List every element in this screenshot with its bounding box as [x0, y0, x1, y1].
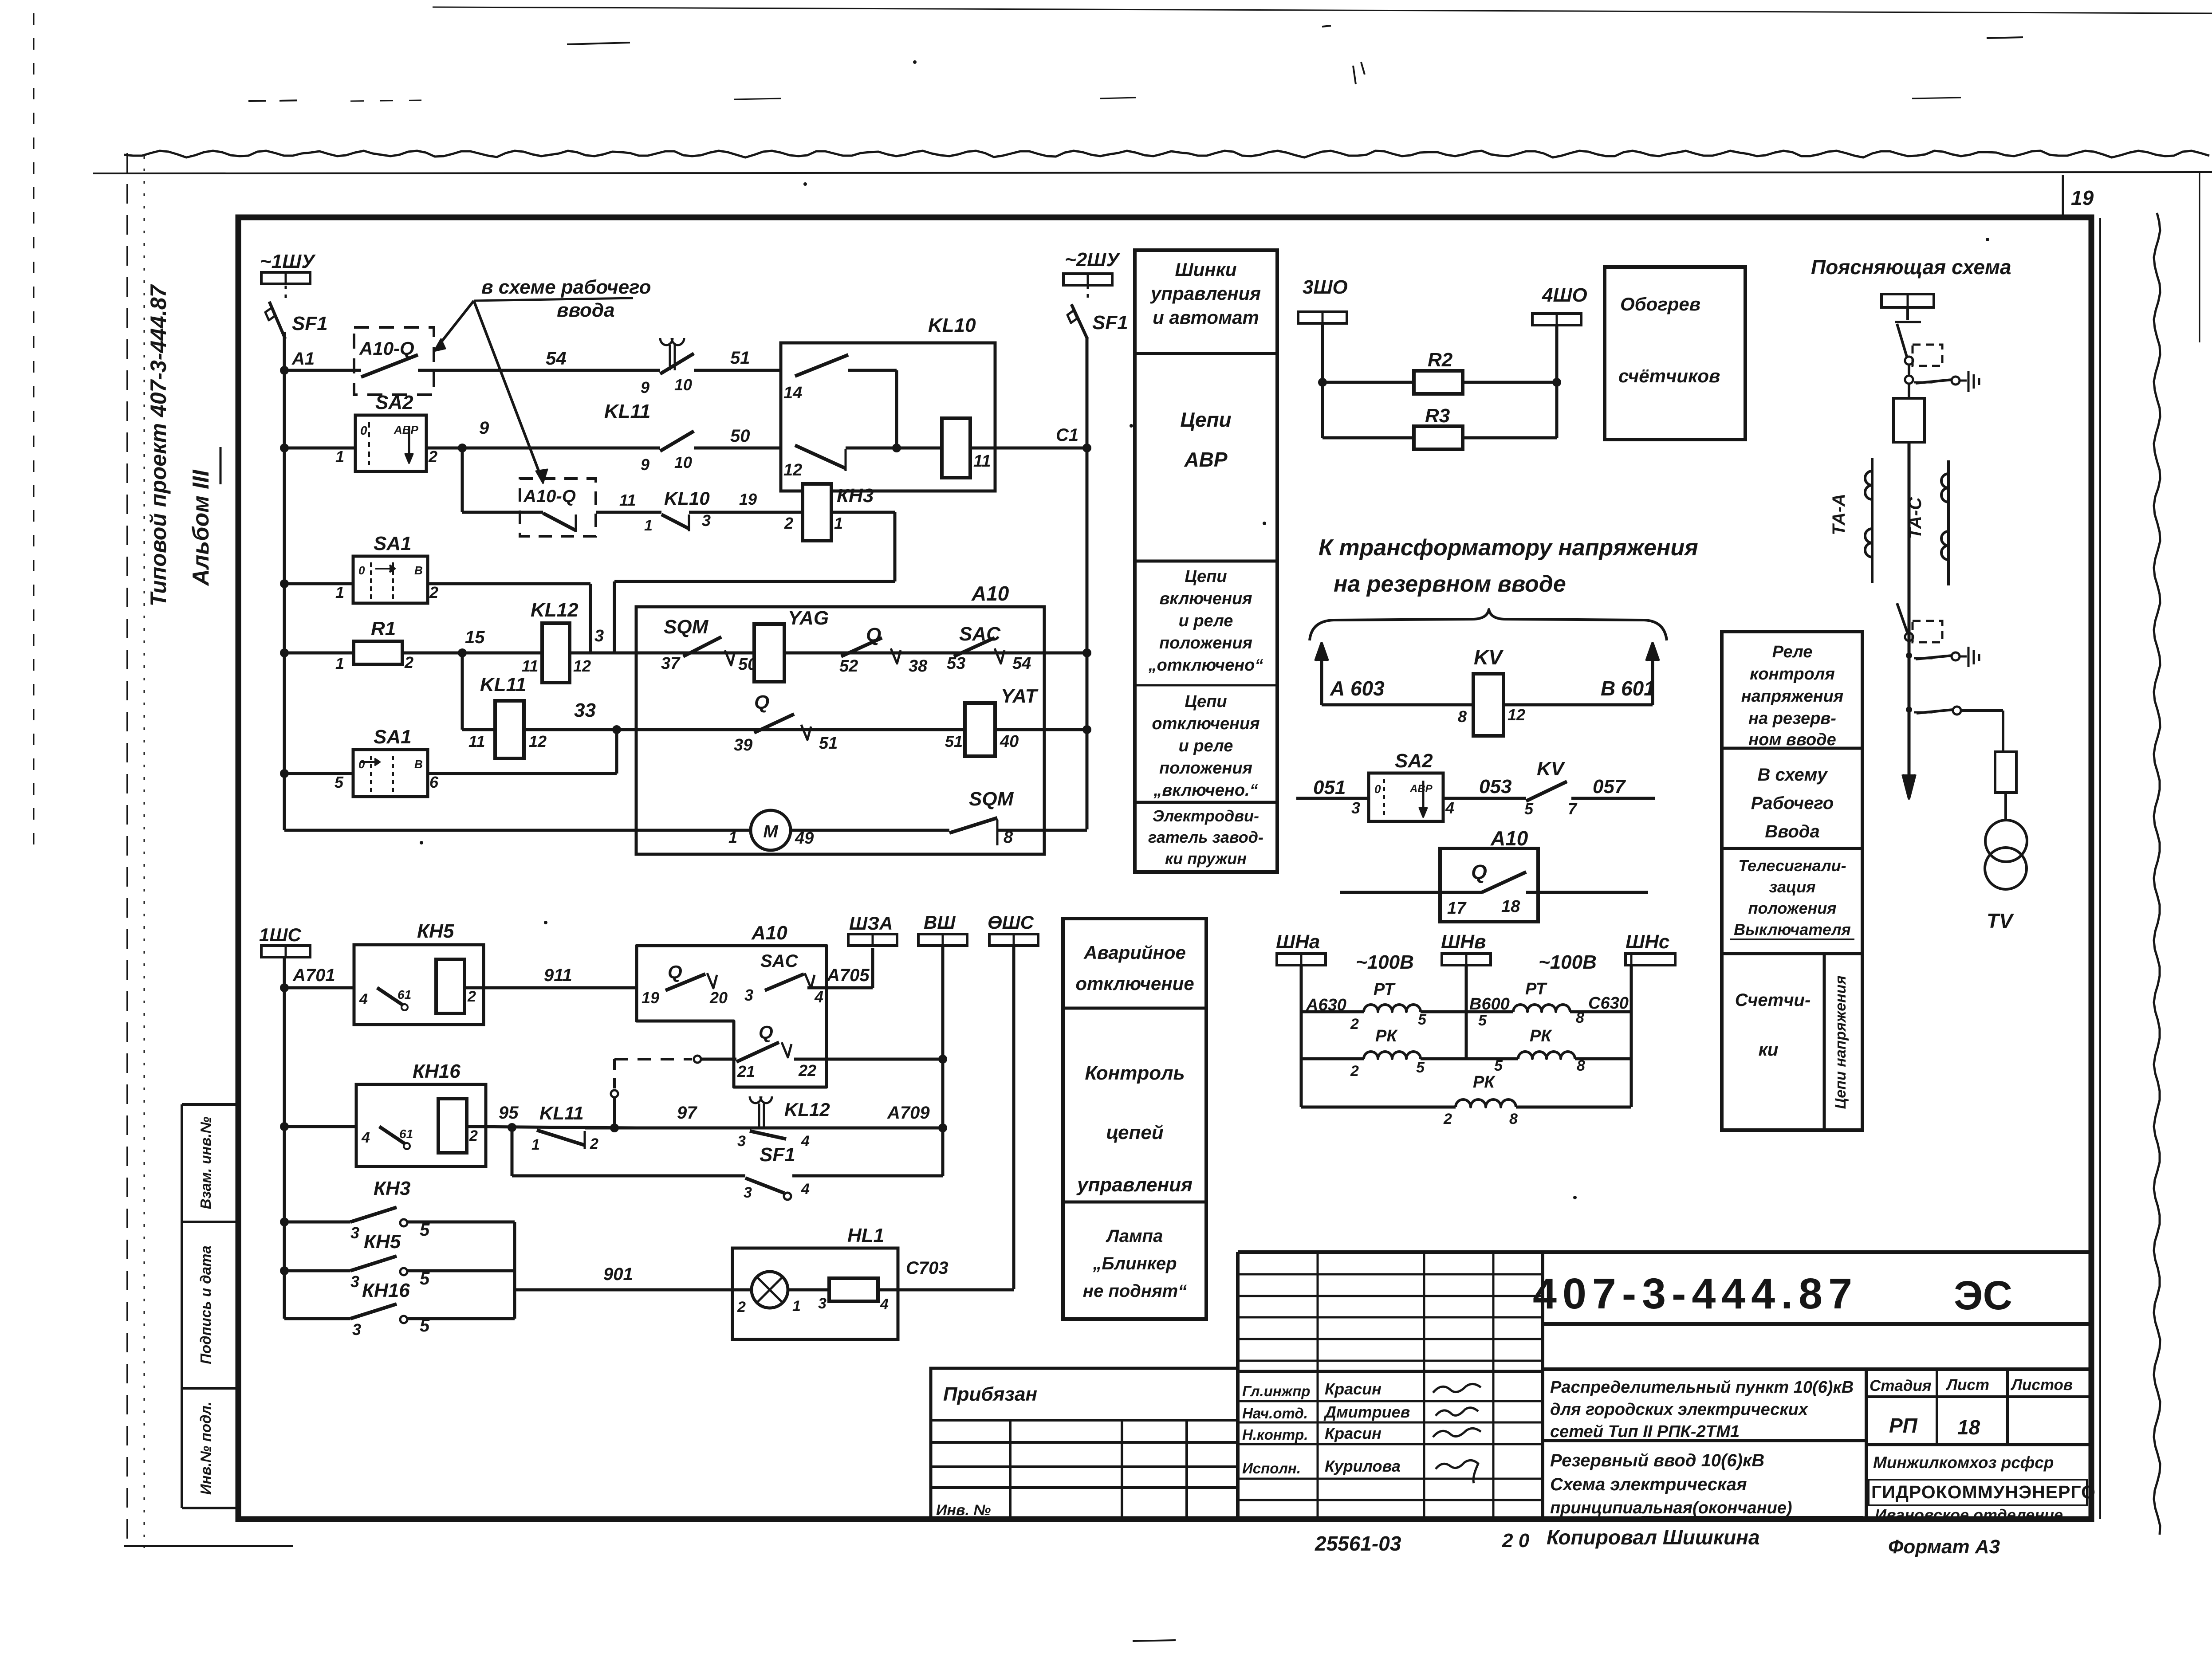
svg-text:Копировал Шишкина: Копировал Шишкина	[1547, 1526, 1760, 1549]
svg-text:Цепи: Цепи	[1180, 408, 1231, 431]
svg-text:8: 8	[1576, 1009, 1584, 1026]
svg-text:Q: Q	[754, 691, 769, 713]
svg-text:2: 2	[428, 448, 437, 466]
svg-text:~2ШУ: ~2ШУ	[1065, 249, 1121, 271]
svg-text:Красин: Красин	[1325, 1424, 1382, 1442]
svg-text:„отключено“: „отключено“	[1148, 656, 1263, 675]
svg-text:Резервный ввод 10(6)кВ: Резервный ввод 10(6)кВ	[1550, 1451, 1764, 1470]
svg-text:ГИДРОКОММУНЭНЕРГО: ГИДРОКОММУНЭНЕРГО	[1871, 1482, 2096, 1502]
svg-text:SQM: SQM	[969, 788, 1014, 810]
svg-text:KV: KV	[1537, 758, 1566, 780]
svg-text:отключение: отключение	[1075, 973, 1194, 994]
svg-text:407-3-444.87: 407-3-444.87	[1533, 1269, 1858, 1318]
svg-text:61: 61	[398, 988, 411, 1001]
svg-text:19: 19	[2071, 186, 2094, 209]
svg-text:19: 19	[739, 490, 757, 508]
svg-text:Выключателя: Выключателя	[1734, 920, 1851, 939]
svg-text:положения: положения	[1748, 899, 1837, 917]
svg-text:20: 20	[709, 989, 728, 1007]
svg-text:2: 2	[784, 514, 793, 532]
svg-text:3: 3	[744, 1184, 752, 1201]
svg-text:3: 3	[594, 627, 604, 645]
svg-text:4: 4	[801, 1133, 810, 1150]
svg-text:54: 54	[546, 348, 567, 369]
svg-text:РК: РК	[1375, 1027, 1398, 1045]
svg-text:Цепи напряжения: Цепи напряжения	[1832, 976, 1849, 1109]
svg-text:4: 4	[880, 1296, 889, 1313]
svg-text:8: 8	[1509, 1111, 1518, 1127]
svg-text:В 601: В 601	[1601, 677, 1655, 700]
svg-text:3ШО: 3ШО	[1303, 276, 1348, 298]
svg-text:15: 15	[465, 628, 485, 647]
svg-text:ТА-С: ТА-С	[1905, 497, 1925, 539]
svg-text:5: 5	[1524, 800, 1534, 818]
svg-text:А709: А709	[887, 1103, 930, 1123]
svg-text:R3: R3	[1425, 405, 1450, 427]
svg-text:2: 2	[1350, 1016, 1359, 1033]
svg-text:Цепи: Цепи	[1185, 567, 1227, 586]
svg-text:и автомат: и автомат	[1153, 307, 1259, 328]
svg-text:А10: А10	[971, 582, 1009, 605]
svg-text:5: 5	[335, 773, 344, 791]
svg-text:2 0: 2 0	[1502, 1530, 1530, 1551]
svg-text:А10: А10	[1490, 827, 1528, 850]
svg-text:РТ: РТ	[1374, 980, 1396, 999]
svg-text:0: 0	[1374, 782, 1381, 796]
svg-text:54: 54	[1012, 654, 1031, 673]
svg-text:1: 1	[335, 448, 344, 466]
svg-text:Гл.инжпр: Гл.инжпр	[1242, 1383, 1310, 1399]
svg-text:R2: R2	[1428, 349, 1453, 371]
svg-text:А10-Q: А10-Q	[359, 338, 414, 359]
svg-text:Распределительный пункт 10(6)к: Распределительный пункт 10(6)кВ	[1550, 1378, 1854, 1397]
svg-text:95: 95	[499, 1103, 519, 1123]
svg-text:М: М	[763, 822, 779, 841]
svg-text:А 603: А 603	[1330, 677, 1385, 700]
svg-text:057: 057	[1593, 776, 1626, 797]
svg-text:Q: Q	[759, 1022, 773, 1043]
svg-text:3: 3	[737, 1133, 746, 1150]
svg-text:33: 33	[574, 699, 596, 721]
svg-text:1: 1	[644, 517, 653, 534]
svg-text:KL12: KL12	[784, 1099, 830, 1120]
svg-text:Ввода: Ввода	[1765, 822, 1819, 841]
svg-text:4: 4	[1445, 799, 1454, 817]
svg-text:РК: РК	[1473, 1073, 1496, 1092]
svg-text:ввода: ввода	[557, 299, 615, 321]
svg-text:4ШО: 4ШО	[1542, 284, 1587, 306]
svg-text:для городских электрических: для городских электрических	[1550, 1400, 1809, 1419]
svg-text:Ивановское отделение: Ивановское отделение	[1875, 1506, 2063, 1524]
svg-text:8: 8	[1458, 707, 1467, 726]
svg-text:0: 0	[360, 424, 367, 437]
svg-text:С1: С1	[1056, 425, 1078, 445]
svg-text:SF1: SF1	[760, 1144, 795, 1166]
svg-text:2: 2	[469, 1127, 478, 1144]
svg-text:3: 3	[702, 511, 711, 530]
svg-text:5: 5	[1418, 1011, 1427, 1028]
svg-text:КН5: КН5	[417, 920, 454, 942]
svg-text:А630: А630	[1306, 996, 1346, 1014]
svg-text:1: 1	[335, 583, 344, 601]
svg-text:38: 38	[909, 657, 928, 675]
svg-text:3: 3	[350, 1272, 359, 1291]
svg-text:Формат А3: Формат А3	[1888, 1536, 2000, 1558]
svg-text:КН5: КН5	[364, 1231, 401, 1253]
svg-text:ном вводе: ном вводе	[1748, 730, 1836, 749]
svg-text:KL11: KL11	[480, 674, 526, 695]
svg-text:цепей: цепей	[1106, 1122, 1164, 1143]
svg-text:SA2: SA2	[375, 392, 413, 413]
svg-text:„Блинкер: „Блинкер	[1092, 1254, 1177, 1273]
svg-text:Лист: Лист	[1945, 1376, 1989, 1394]
svg-text:3: 3	[350, 1224, 359, 1242]
svg-text:Аварийное: Аварийное	[1083, 942, 1186, 963]
svg-text:Телесигнали-: Телесигнали-	[1738, 856, 1846, 875]
svg-text:KL12: KL12	[531, 599, 579, 621]
svg-text:2: 2	[590, 1135, 598, 1152]
svg-text:сетей Тип II РПК-2ТМ1: сетей Тип II РПК-2ТМ1	[1550, 1422, 1740, 1441]
svg-text:ШНс: ШНс	[1626, 931, 1669, 953]
svg-text:37: 37	[661, 654, 681, 673]
svg-text:С630: С630	[1588, 994, 1629, 1013]
svg-text:1ШС: 1ШС	[259, 924, 301, 945]
svg-text:21: 21	[737, 1062, 755, 1080]
svg-text:Курилова: Курилова	[1325, 1457, 1401, 1475]
svg-text:8: 8	[1577, 1057, 1585, 1074]
svg-text:Дмитриев: Дмитриев	[1323, 1403, 1410, 1421]
svg-text:5: 5	[1416, 1059, 1425, 1076]
svg-text:А10-Q: А10-Q	[523, 487, 576, 506]
svg-text:ТV: ТV	[1987, 909, 2014, 932]
svg-text:11: 11	[973, 452, 991, 471]
svg-text:Стадия: Стадия	[1870, 1377, 1932, 1394]
svg-text:2: 2	[429, 583, 438, 601]
svg-text:АВР: АВР	[1409, 783, 1433, 795]
svg-text:управления: управления	[1150, 283, 1261, 304]
svg-text:9: 9	[641, 456, 649, 474]
svg-text:Рабочего: Рабочего	[1751, 793, 1834, 813]
svg-text:40: 40	[1000, 732, 1019, 751]
svg-text:1: 1	[335, 654, 344, 672]
svg-text:18: 18	[1957, 1416, 1980, 1439]
svg-text:ШЗА: ШЗА	[849, 913, 893, 934]
svg-text:22: 22	[798, 1061, 816, 1080]
svg-text:Шинки: Шинки	[1175, 259, 1236, 280]
svg-text:SQM: SQM	[664, 616, 709, 638]
svg-text:и реле: и реле	[1179, 612, 1233, 630]
svg-text:ШНа: ШНа	[1276, 931, 1320, 953]
svg-text:А701: А701	[292, 966, 335, 985]
svg-text:зация: зация	[1769, 878, 1816, 896]
svg-text:АВР: АВР	[1184, 448, 1227, 471]
svg-text:9: 9	[479, 418, 489, 438]
svg-text:Счетчи-: Счетчи-	[1735, 990, 1811, 1010]
svg-text:12: 12	[783, 461, 802, 479]
svg-text:KL10: KL10	[928, 314, 976, 336]
svg-text:принципиальная(окончание): принципиальная(окончание)	[1550, 1499, 1792, 1517]
svg-text:4: 4	[801, 1181, 810, 1198]
svg-text:отключения: отключения	[1152, 715, 1260, 733]
svg-text:счётчиков: счётчиков	[1618, 365, 1720, 386]
svg-text:ШНв: ШНв	[1441, 931, 1486, 953]
svg-text:SAC: SAC	[959, 623, 1001, 645]
svg-text:901: 901	[603, 1265, 633, 1284]
svg-text:Q: Q	[668, 962, 682, 983]
svg-text:1: 1	[834, 514, 843, 532]
svg-text:ки: ки	[1759, 1040, 1779, 1060]
svg-text:Q: Q	[1471, 860, 1487, 884]
svg-text:9: 9	[641, 378, 649, 397]
svg-text:YAG: YAG	[788, 607, 829, 629]
svg-text:6: 6	[429, 773, 439, 791]
svg-text:К трансформатору напряжения: К трансформатору напряжения	[1319, 535, 1698, 561]
svg-text:2: 2	[1443, 1111, 1452, 1127]
svg-text:Схема электрическая: Схема электрическая	[1550, 1475, 1747, 1494]
svg-text:SA2: SA2	[1395, 750, 1433, 772]
svg-text:053: 053	[1479, 776, 1511, 797]
svg-text:в схеме рабочего: в схеме рабочего	[481, 276, 651, 298]
svg-text:51: 51	[945, 732, 963, 750]
svg-text:2: 2	[737, 1299, 746, 1316]
svg-text:3: 3	[744, 986, 753, 1004]
svg-text:HL1: HL1	[847, 1225, 884, 1246]
svg-text:51: 51	[730, 348, 750, 368]
svg-text:7: 7	[1568, 800, 1578, 818]
svg-text:2: 2	[1350, 1063, 1359, 1080]
svg-text:управления: управления	[1076, 1174, 1193, 1196]
svg-text:61: 61	[399, 1127, 413, 1141]
svg-text:В: В	[414, 564, 423, 577]
svg-text:51: 51	[819, 734, 838, 753]
svg-text:0: 0	[358, 758, 365, 771]
svg-text:4: 4	[359, 991, 368, 1008]
svg-text:С703: С703	[906, 1258, 949, 1278]
svg-text:КН3: КН3	[374, 1178, 410, 1199]
svg-text:и реле: и реле	[1179, 737, 1233, 755]
svg-text:12: 12	[529, 732, 547, 750]
svg-text:3: 3	[818, 1295, 827, 1312]
svg-text:Красин: Красин	[1325, 1380, 1382, 1398]
svg-text:17: 17	[1447, 899, 1467, 918]
svg-text:„включено.“: „включено.“	[1153, 781, 1258, 800]
svg-text:Исполн.: Исполн.	[1242, 1460, 1301, 1477]
svg-text:051: 051	[1313, 777, 1346, 798]
svg-text:Инв. №: Инв. №	[936, 1502, 991, 1519]
svg-text:Реле: Реле	[1772, 643, 1813, 661]
svg-text:1: 1	[728, 828, 737, 846]
svg-text:KL11: KL11	[539, 1103, 584, 1123]
svg-text:Взам. инв.№: Взам. инв.№	[197, 1116, 214, 1209]
svg-text:KL10: KL10	[664, 488, 710, 509]
svg-text:KL11: KL11	[604, 401, 650, 422]
svg-text:19: 19	[642, 989, 659, 1007]
svg-text:2: 2	[467, 988, 476, 1005]
svg-text:Листов: Листов	[2010, 1376, 2073, 1394]
svg-text:11: 11	[522, 657, 538, 675]
svg-text:Типовой проект 407-3-444.87: Типовой проект 407-3-444.87	[146, 284, 171, 606]
svg-text:ЭС: ЭС	[1954, 1273, 2012, 1318]
svg-text:ӨШС: ӨШС	[988, 912, 1034, 933]
svg-text:А10: А10	[751, 922, 787, 944]
svg-text:Н.контр.: Н.контр.	[1242, 1426, 1308, 1443]
svg-text:Прибязан: Прибязан	[943, 1383, 1037, 1405]
svg-text:КН16: КН16	[362, 1280, 410, 1301]
svg-text:SF1: SF1	[1092, 312, 1128, 334]
svg-text:3: 3	[352, 1320, 361, 1339]
svg-text:911: 911	[544, 966, 572, 985]
svg-text:напряжения: напряжения	[1741, 687, 1844, 706]
svg-text:на резервном вводе: на резервном вводе	[1334, 571, 1566, 597]
svg-text:ТА-А: ТА-А	[1829, 494, 1849, 535]
svg-text:Минжилкомхоз рсфср: Минжилкомхоз рсфср	[1873, 1453, 2054, 1472]
svg-text:4: 4	[814, 988, 823, 1006]
svg-text:SAC: SAC	[760, 951, 799, 971]
svg-text:SA1: SA1	[374, 726, 412, 748]
svg-text:Лампа: Лампа	[1106, 1226, 1163, 1246]
svg-text:R1: R1	[371, 618, 396, 640]
svg-text:КН16: КН16	[413, 1060, 461, 1082]
svg-text:контроля: контроля	[1750, 665, 1835, 683]
svg-text:Нач.отд.: Нач.отд.	[1242, 1405, 1308, 1422]
svg-text:АВР: АВР	[394, 423, 419, 436]
svg-text:39: 39	[734, 736, 752, 754]
svg-text:YAT: YAT	[1001, 685, 1039, 707]
svg-text:РП: РП	[1889, 1414, 1918, 1437]
svg-text:1: 1	[792, 1298, 801, 1315]
svg-text:5: 5	[1478, 1012, 1487, 1029]
svg-text:А1: А1	[291, 349, 315, 369]
svg-text:11: 11	[619, 491, 636, 509]
svg-text:~1ШУ: ~1ШУ	[260, 251, 316, 272]
svg-text:положения: положения	[1159, 634, 1252, 652]
svg-text:25561-03: 25561-03	[1315, 1532, 1401, 1555]
svg-text:В600: В600	[1469, 995, 1510, 1013]
svg-text:В: В	[414, 758, 423, 771]
svg-text:Альбом III: Альбом III	[188, 469, 214, 587]
svg-text:5: 5	[1494, 1057, 1503, 1074]
svg-text:0: 0	[358, 564, 365, 577]
svg-text:52: 52	[839, 657, 858, 675]
svg-text:РК: РК	[1530, 1027, 1552, 1045]
svg-text:КН3: КН3	[837, 485, 874, 507]
svg-text:14: 14	[783, 384, 802, 402]
svg-text:Цепи: Цепи	[1185, 692, 1227, 711]
svg-text:Контроль: Контроль	[1085, 1062, 1185, 1084]
svg-text:12: 12	[1507, 706, 1525, 724]
svg-text:Поясняющая схема: Поясняющая схема	[1811, 255, 2011, 279]
svg-text:Обогрев: Обогрев	[1620, 294, 1700, 314]
svg-text:10: 10	[674, 453, 692, 471]
svg-text:В схему: В схему	[1757, 765, 1828, 785]
svg-text:18: 18	[1501, 897, 1520, 916]
svg-text:положения: положения	[1159, 759, 1252, 778]
svg-text:Подпись и дата: Подпись и дата	[197, 1245, 214, 1364]
svg-text:ВШ: ВШ	[924, 912, 956, 933]
svg-text:97: 97	[677, 1103, 697, 1123]
svg-text:~100В: ~100В	[1356, 951, 1414, 973]
svg-text:SF1: SF1	[292, 313, 328, 334]
svg-text:2: 2	[404, 653, 413, 672]
svg-text:А705: А705	[827, 966, 870, 985]
svg-text:12: 12	[573, 657, 591, 675]
svg-text:~100В: ~100В	[1539, 951, 1597, 973]
svg-text:11: 11	[468, 732, 485, 750]
svg-text:Электродви-: Электродви-	[1153, 807, 1259, 825]
svg-text:не поднят“: не поднят“	[1083, 1281, 1187, 1301]
svg-text:50: 50	[730, 426, 750, 446]
svg-text:ки пружин: ки пружин	[1165, 849, 1247, 868]
svg-text:SA1: SA1	[374, 533, 412, 554]
svg-text:включения: включения	[1159, 589, 1252, 608]
svg-text:10: 10	[674, 376, 692, 394]
svg-text:3: 3	[1351, 799, 1360, 817]
svg-text:KV: KV	[1474, 646, 1504, 669]
svg-text:Инв.№ подл.: Инв.№ подл.	[197, 1402, 214, 1495]
svg-text:на резерв-: на резерв-	[1748, 709, 1836, 728]
svg-text:гатель завод-: гатель завод-	[1148, 828, 1263, 846]
svg-text:4: 4	[361, 1129, 370, 1146]
svg-text:1: 1	[531, 1136, 540, 1153]
svg-text:РТ: РТ	[1525, 980, 1547, 998]
